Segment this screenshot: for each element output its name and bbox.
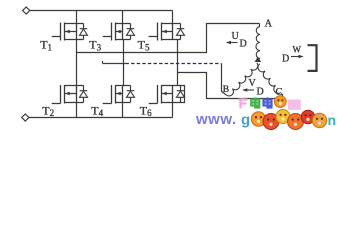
svg-text:T4: T4: [91, 103, 103, 118]
svg-text:D: D: [257, 87, 264, 98]
winding C coil: [258, 64, 281, 94]
wire leg 1 midpoint: [76, 40, 78, 86]
wire leg 3 midpoint: [177, 40, 179, 86]
transistor T6: [149, 85, 181, 104]
svg-text:T2: T2: [42, 103, 54, 118]
bracket motor: [308, 45, 317, 71]
svg-text:n: n: [328, 112, 337, 128]
watermark mascots: [251, 110, 326, 130]
wire leg 2 midpoint: [123, 40, 125, 65]
arrow V left: [242, 88, 254, 92]
svg-text:V: V: [249, 78, 257, 89]
watermark text row1: [239, 98, 273, 109]
winding B coil: [226, 63, 258, 96]
wire drain T1 to +rail: [76, 11, 78, 24]
wire source T2 to -rail: [76, 103, 78, 118]
svg-text:T1: T1: [40, 38, 52, 53]
wire source T4 to -rail: [122, 103, 124, 118]
diode D5: [177, 24, 185, 40]
transistor T4: [103, 85, 131, 104]
svg-text:B: B: [223, 85, 229, 95]
watermark pink block: [288, 100, 301, 110]
arrow U left: [226, 41, 238, 45]
transistor T3: [103, 23, 131, 41]
transistor T2: [52, 85, 84, 104]
wire phase C: [178, 73, 283, 99]
diode D1: [80, 24, 88, 40]
star point node: [255, 57, 262, 62]
wire drain T5 to +rail: [172, 11, 174, 24]
wire phase B dashed part: [126, 63, 222, 65]
transistor T1: [52, 23, 84, 41]
diode D2: [80, 86, 88, 103]
wire drain T3 to +rail: [122, 11, 124, 24]
diode D4: [127, 86, 135, 103]
wire bottom rail: [29, 117, 173, 119]
transistor T6 right link: [181, 86, 185, 103]
svg-text:T5: T5: [138, 38, 150, 53]
diode D6: [177, 86, 185, 103]
watermark mascot orange: [274, 96, 286, 108]
svg-text:D: D: [282, 54, 289, 65]
svg-text:www.: www.: [195, 111, 237, 128]
arrow W right: [291, 55, 304, 59]
svg-text:W: W: [293, 45, 302, 55]
wire source T6 to -rail: [172, 103, 174, 118]
winding A coil: [259, 24, 261, 27]
wire phase B drop to node B: [222, 64, 227, 96]
svg-text:D: D: [240, 39, 247, 50]
terminal P+ (top diamond): [23, 7, 30, 14]
svg-text:T3: T3: [89, 38, 101, 53]
wire phase A: [77, 24, 260, 53]
svg-text:g: g: [241, 112, 250, 129]
svg-text:U: U: [232, 31, 240, 42]
terminal P- (bottom diamond): [22, 114, 29, 121]
transistor T5: [149, 23, 181, 41]
svg-text:T6: T6: [140, 103, 152, 118]
wire top rail: [30, 10, 173, 12]
svg-text:A: A: [265, 19, 273, 30]
wire phase B solid part: [103, 61, 126, 64]
diode D3: [127, 24, 135, 40]
